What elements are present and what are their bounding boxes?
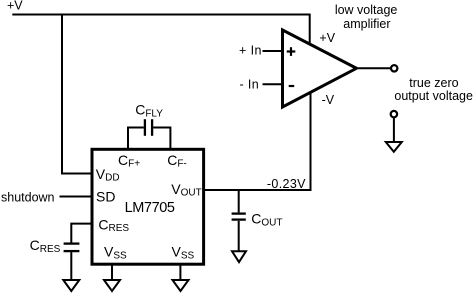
svg-text:CFLY: CFLY [135,101,163,119]
svg-text:COUT: COUT [251,210,282,228]
svg-text:-0.23V: -0.23V [267,177,306,191]
svg-text:low voltage: low voltage [335,3,398,17]
svg-text:CRES: CRES [30,237,61,255]
svg-text:+V: +V [319,31,335,45]
svg-text:+V: +V [7,0,23,12]
svg-text:-V: -V [322,93,335,107]
svg-text:LM7705: LM7705 [125,200,175,216]
svg-text:SD: SD [96,188,115,204]
svg-text:amplifier: amplifier [343,17,390,31]
svg-text:shutdown: shutdown [1,190,55,204]
svg-text:output voltage: output voltage [394,89,473,103]
svg-text:+ In: + In [239,43,262,57]
svg-text:- In: - In [240,77,260,91]
svg-text:true zero: true zero [409,76,458,90]
